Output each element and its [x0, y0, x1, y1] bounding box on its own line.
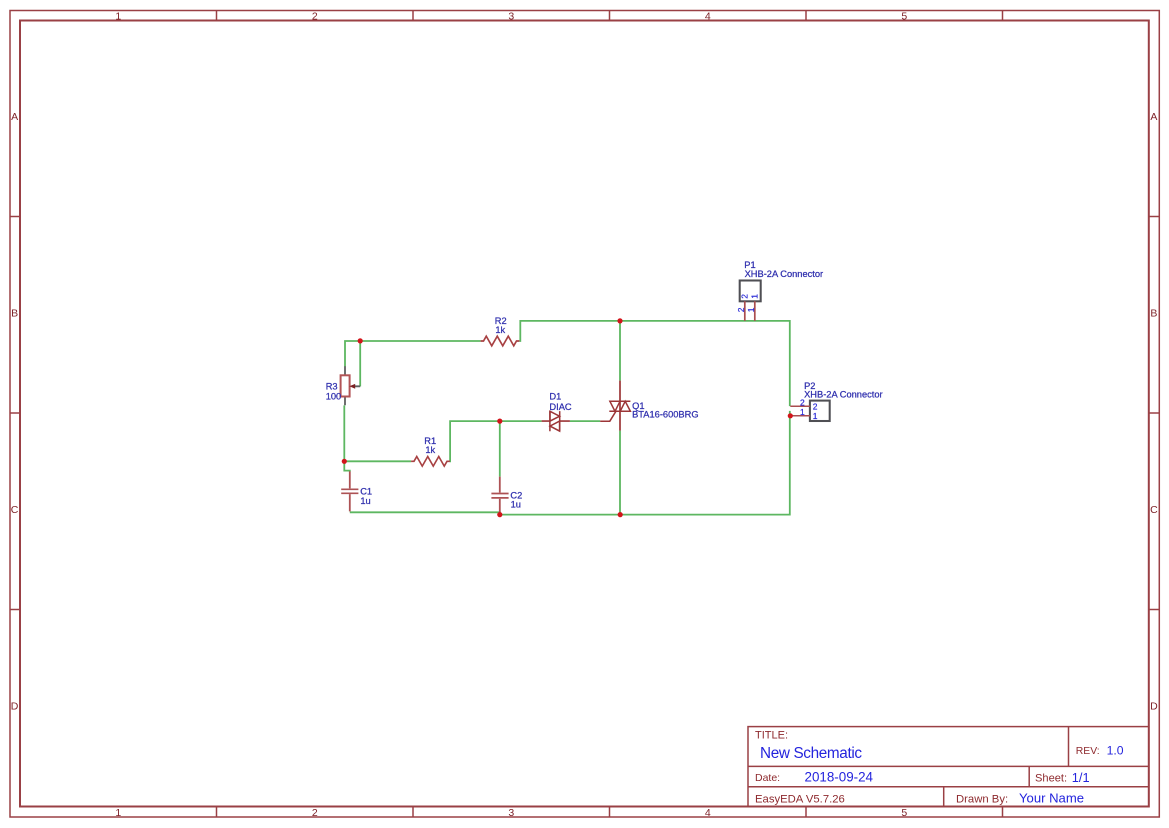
svg-text:TITLE:: TITLE: [755, 730, 788, 742]
svg-text:D1: D1 [549, 392, 561, 402]
svg-text:Sheet:: Sheet: [1035, 772, 1067, 784]
svg-text:1: 1 [813, 411, 818, 421]
svg-text:100: 100 [326, 391, 342, 401]
svg-text:4: 4 [705, 807, 711, 819]
svg-text:XHB-2A Connector: XHB-2A Connector [804, 390, 883, 400]
svg-text:New Schematic: New Schematic [760, 745, 862, 762]
svg-text:4: 4 [705, 10, 711, 22]
svg-text:1k: 1k [425, 445, 435, 455]
svg-text:2: 2 [312, 10, 318, 22]
svg-text:1/1: 1/1 [1072, 770, 1090, 785]
svg-text:2018-09-24: 2018-09-24 [805, 770, 874, 785]
svg-text:1u: 1u [360, 496, 370, 506]
svg-text:2: 2 [739, 294, 749, 299]
svg-text:Your Name: Your Name [1019, 791, 1084, 806]
svg-text:1u: 1u [511, 500, 521, 510]
svg-text:1: 1 [800, 407, 805, 417]
svg-text:3: 3 [508, 807, 514, 819]
svg-text:REV:: REV: [1076, 746, 1100, 757]
svg-text:C1: C1 [360, 487, 372, 497]
svg-text:A: A [11, 111, 18, 123]
svg-text:1k: 1k [495, 325, 505, 335]
svg-text:2: 2 [736, 307, 746, 312]
svg-text:R3: R3 [326, 381, 338, 391]
svg-text:1: 1 [746, 307, 756, 312]
svg-text:2: 2 [312, 807, 318, 819]
svg-text:1: 1 [750, 294, 760, 299]
svg-text:1: 1 [115, 10, 121, 22]
svg-text:1.0: 1.0 [1107, 744, 1124, 758]
svg-text:DIAC: DIAC [549, 402, 571, 412]
svg-text:BTA16-600BRG: BTA16-600BRG [632, 410, 699, 420]
svg-text:Drawn By:: Drawn By: [956, 793, 1008, 805]
svg-text:2: 2 [813, 401, 818, 411]
svg-text:5: 5 [901, 10, 907, 22]
svg-text:1: 1 [115, 807, 121, 819]
svg-text:5: 5 [901, 807, 907, 819]
svg-text:D: D [1150, 701, 1158, 713]
svg-text:C: C [11, 504, 19, 516]
svg-text:XHB-2A Connector: XHB-2A Connector [745, 269, 824, 279]
svg-text:B: B [11, 308, 18, 320]
svg-text:Date:: Date: [755, 772, 780, 784]
svg-text:B: B [1150, 308, 1157, 320]
svg-text:D: D [11, 701, 19, 713]
svg-text:EasyEDA V5.7.26: EasyEDA V5.7.26 [755, 793, 845, 805]
svg-text:A: A [1150, 111, 1157, 123]
svg-text:3: 3 [508, 10, 514, 22]
svg-text:C: C [1150, 504, 1158, 516]
